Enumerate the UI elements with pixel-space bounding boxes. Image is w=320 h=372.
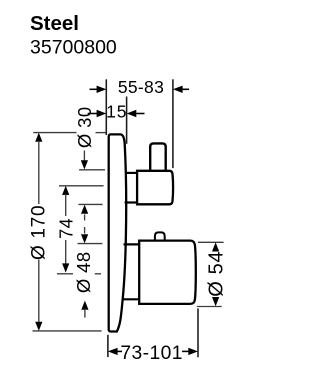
dimension text 74 (57, 218, 77, 239)
extension line L2 upper handle top (79, 169, 105, 171)
svg-text:Ø 30: Ø 30 (74, 106, 95, 148)
dimension 55-83 left arrow (90, 86, 107, 93)
svg-text:Steel: Steel (30, 12, 79, 35)
dimension 55-83 right arrow (173, 86, 189, 93)
dimension 73-101 arrows (108, 348, 198, 355)
dimension 73-101 extension line right (197, 308, 199, 357)
product number 35700800 (30, 37, 117, 59)
lower handle body (139, 241, 196, 304)
svg-text:74: 74 (57, 218, 77, 239)
dimension 74 (62, 186, 69, 273)
svg-text:55-83: 55-83 (118, 77, 164, 97)
dimension text 73-101 (120, 343, 182, 364)
svg-text:Ø 170: Ø 170 (29, 205, 50, 260)
upper handle body (137, 171, 173, 205)
extension line L4 upper handle bottom (79, 203, 103, 205)
dimension text 55-83 (118, 77, 164, 97)
wall plate (side view, Ø170) (109, 134, 126, 331)
svg-text:35700800: 35700800 (30, 37, 117, 59)
svg-text:73-101: 73-101 (120, 343, 182, 364)
dimension 15 extension line right (126, 97, 128, 144)
dimension text Ø170 (29, 205, 50, 260)
extension line L5 lower neck top (78, 243, 103, 245)
dimension 73-101 extension line left (107, 335, 109, 357)
svg-text:Ø 48: Ø 48 (73, 251, 94, 293)
dimension 55-83 extension line left (105, 79, 107, 135)
extension line L3 upper handle centre (59, 185, 104, 187)
dimension 55-83 extension line right (172, 79, 174, 168)
dimension 15 left arrow (88, 110, 107, 117)
dimension text 15 (106, 101, 127, 121)
svg-text:15: 15 (106, 101, 127, 121)
extension line L7 plate bottom (33, 330, 102, 332)
upper handle neck (125, 173, 139, 203)
dimension Ø170 (35, 133, 42, 331)
dimension Ø30 (text and arrows) (74, 106, 95, 243)
dimension Ø54 (197, 242, 228, 306)
dimension 15 right arrow (127, 110, 145, 117)
extension line L1 plate top (33, 132, 105, 134)
svg-text:Ø 54: Ø 54 (206, 251, 228, 297)
upper handle knob (150, 143, 166, 171)
dimension Ø48 (arrow and text) (73, 251, 94, 317)
extension line L6 lower handle centre (57, 273, 101, 275)
lower handle bump (155, 232, 165, 241)
title Steel (30, 12, 79, 35)
lower handle neck (122, 244, 140, 299)
